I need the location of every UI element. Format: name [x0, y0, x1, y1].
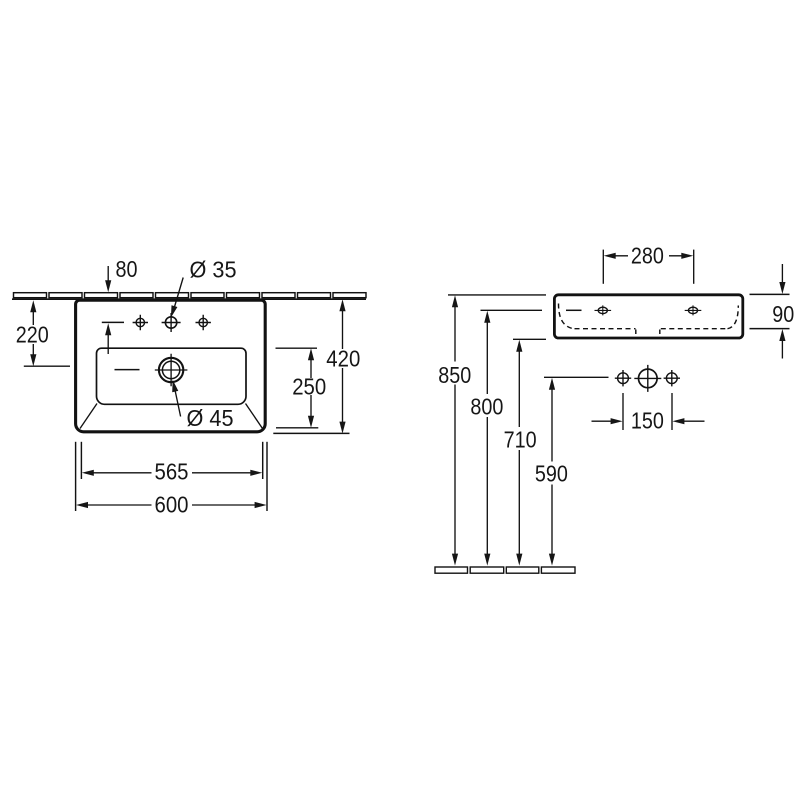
front datum dash: [566, 309, 582, 311]
svg-text:Ø 35: Ø 35: [190, 257, 237, 283]
dimension 250 bottom extension line: [276, 427, 318, 429]
dimension 600 line: [76, 502, 88, 508]
dimension 150 left extension line: [622, 393, 624, 430]
dimension 710 top tick: [513, 338, 546, 340]
connection cross right: [664, 370, 680, 386]
dimension 250 top arrow: [308, 348, 314, 360]
dimension 280 right extension line: [693, 250, 695, 284]
connection drain circle: [634, 365, 661, 392]
leader line &#216;35: [174, 278, 183, 308]
dimension 590 line: [549, 378, 555, 390]
floor tiles: [435, 567, 575, 573]
dimension 90 top extension line: [750, 293, 790, 295]
bowl slope diagonal left: [80, 404, 97, 429]
dimension 220 extension line: [24, 365, 70, 367]
connection level line: [544, 376, 609, 378]
svg-text:590: 590: [535, 461, 568, 487]
front tap hole left: [595, 305, 612, 315]
svg-text:710: 710: [504, 427, 537, 453]
dimension 220 top arrow: [30, 300, 36, 312]
dimension 250 bottom arrow: [310, 395, 312, 417]
hidden drain dash right: [659, 330, 661, 338]
hidden drain dash left: [635, 330, 637, 338]
dimension 80 datum dash: [102, 321, 124, 323]
dimension 710 line: [516, 340, 522, 352]
svg-text:565: 565: [155, 459, 189, 485]
dimension 600 left extension line: [75, 442, 77, 511]
drain &#216;45 inner circle: [162, 361, 179, 378]
basin outer outline: [76, 300, 266, 432]
front tap hole right: [685, 305, 702, 315]
hidden bowl dashed bottom left: [575, 328, 636, 330]
dimension 280 left extension line: [602, 250, 604, 284]
svg-text:600: 600: [155, 491, 189, 517]
svg-text:420: 420: [326, 345, 360, 371]
dimension 850 line: [452, 295, 458, 307]
dimension 800 top tick: [481, 309, 543, 311]
drain &#216;45 outer circle: [159, 358, 183, 382]
basin inner bowl outline: [97, 348, 247, 404]
hidden bowl dashed right curve: [728, 306, 739, 329]
connection cross left: [615, 370, 631, 386]
dimension 420 bottom extension line: [273, 432, 349, 434]
leader line &#216;45: [175, 391, 180, 417]
dimension 90 bottom extension line: [750, 328, 790, 330]
dimension 150 line: [592, 420, 612, 422]
svg-text:80: 80: [116, 256, 138, 282]
front outline: [554, 295, 742, 338]
wall baseline: [12, 298, 366, 300]
dimension 150 right extension line: [671, 393, 673, 430]
dimension 80 top arrow: [107, 266, 109, 282]
svg-text:280: 280: [631, 242, 664, 268]
dimension 80 bottom arrow: [107, 333, 109, 354]
dimension 280 line: [604, 253, 616, 259]
svg-text:250: 250: [292, 373, 326, 399]
dimension 250 top extension line: [276, 347, 318, 349]
hidden bowl dashed left curve: [559, 304, 574, 329]
dimension 600 right extension line: [266, 442, 268, 511]
drain crosshair: [155, 354, 188, 387]
dimension 850 top tick: [448, 294, 546, 296]
svg-text:150: 150: [631, 408, 664, 434]
dimension 565 left extension line: [80, 442, 82, 479]
svg-text:Ø 45: Ø 45: [187, 405, 234, 431]
dimension 90 bottom arrow: [781, 340, 783, 359]
dimension 800 line: [484, 311, 490, 323]
dimension 565 line: [82, 470, 94, 476]
svg-text:220: 220: [16, 322, 49, 348]
drain level dash: [115, 369, 140, 371]
bowl slope diagonal right: [246, 404, 263, 429]
dimension 90 top arrow: [781, 264, 783, 283]
tap hole cross left: [133, 315, 148, 330]
dimension 420 top arrow: [339, 299, 345, 311]
wall hatch boxes: [14, 293, 367, 298]
svg-text:90: 90: [772, 301, 794, 327]
dimension 565 right extension line: [262, 442, 264, 479]
hidden bowl dashed bottom right: [661, 328, 728, 330]
svg-text:800: 800: [470, 394, 503, 420]
dimension 220 bottom arrow: [32, 344, 34, 356]
svg-text:850: 850: [438, 362, 471, 388]
dimension 420 bottom arrow: [342, 368, 344, 423]
tap hole cross right: [196, 315, 211, 330]
tap hole circle &#216;35: [162, 313, 181, 332]
